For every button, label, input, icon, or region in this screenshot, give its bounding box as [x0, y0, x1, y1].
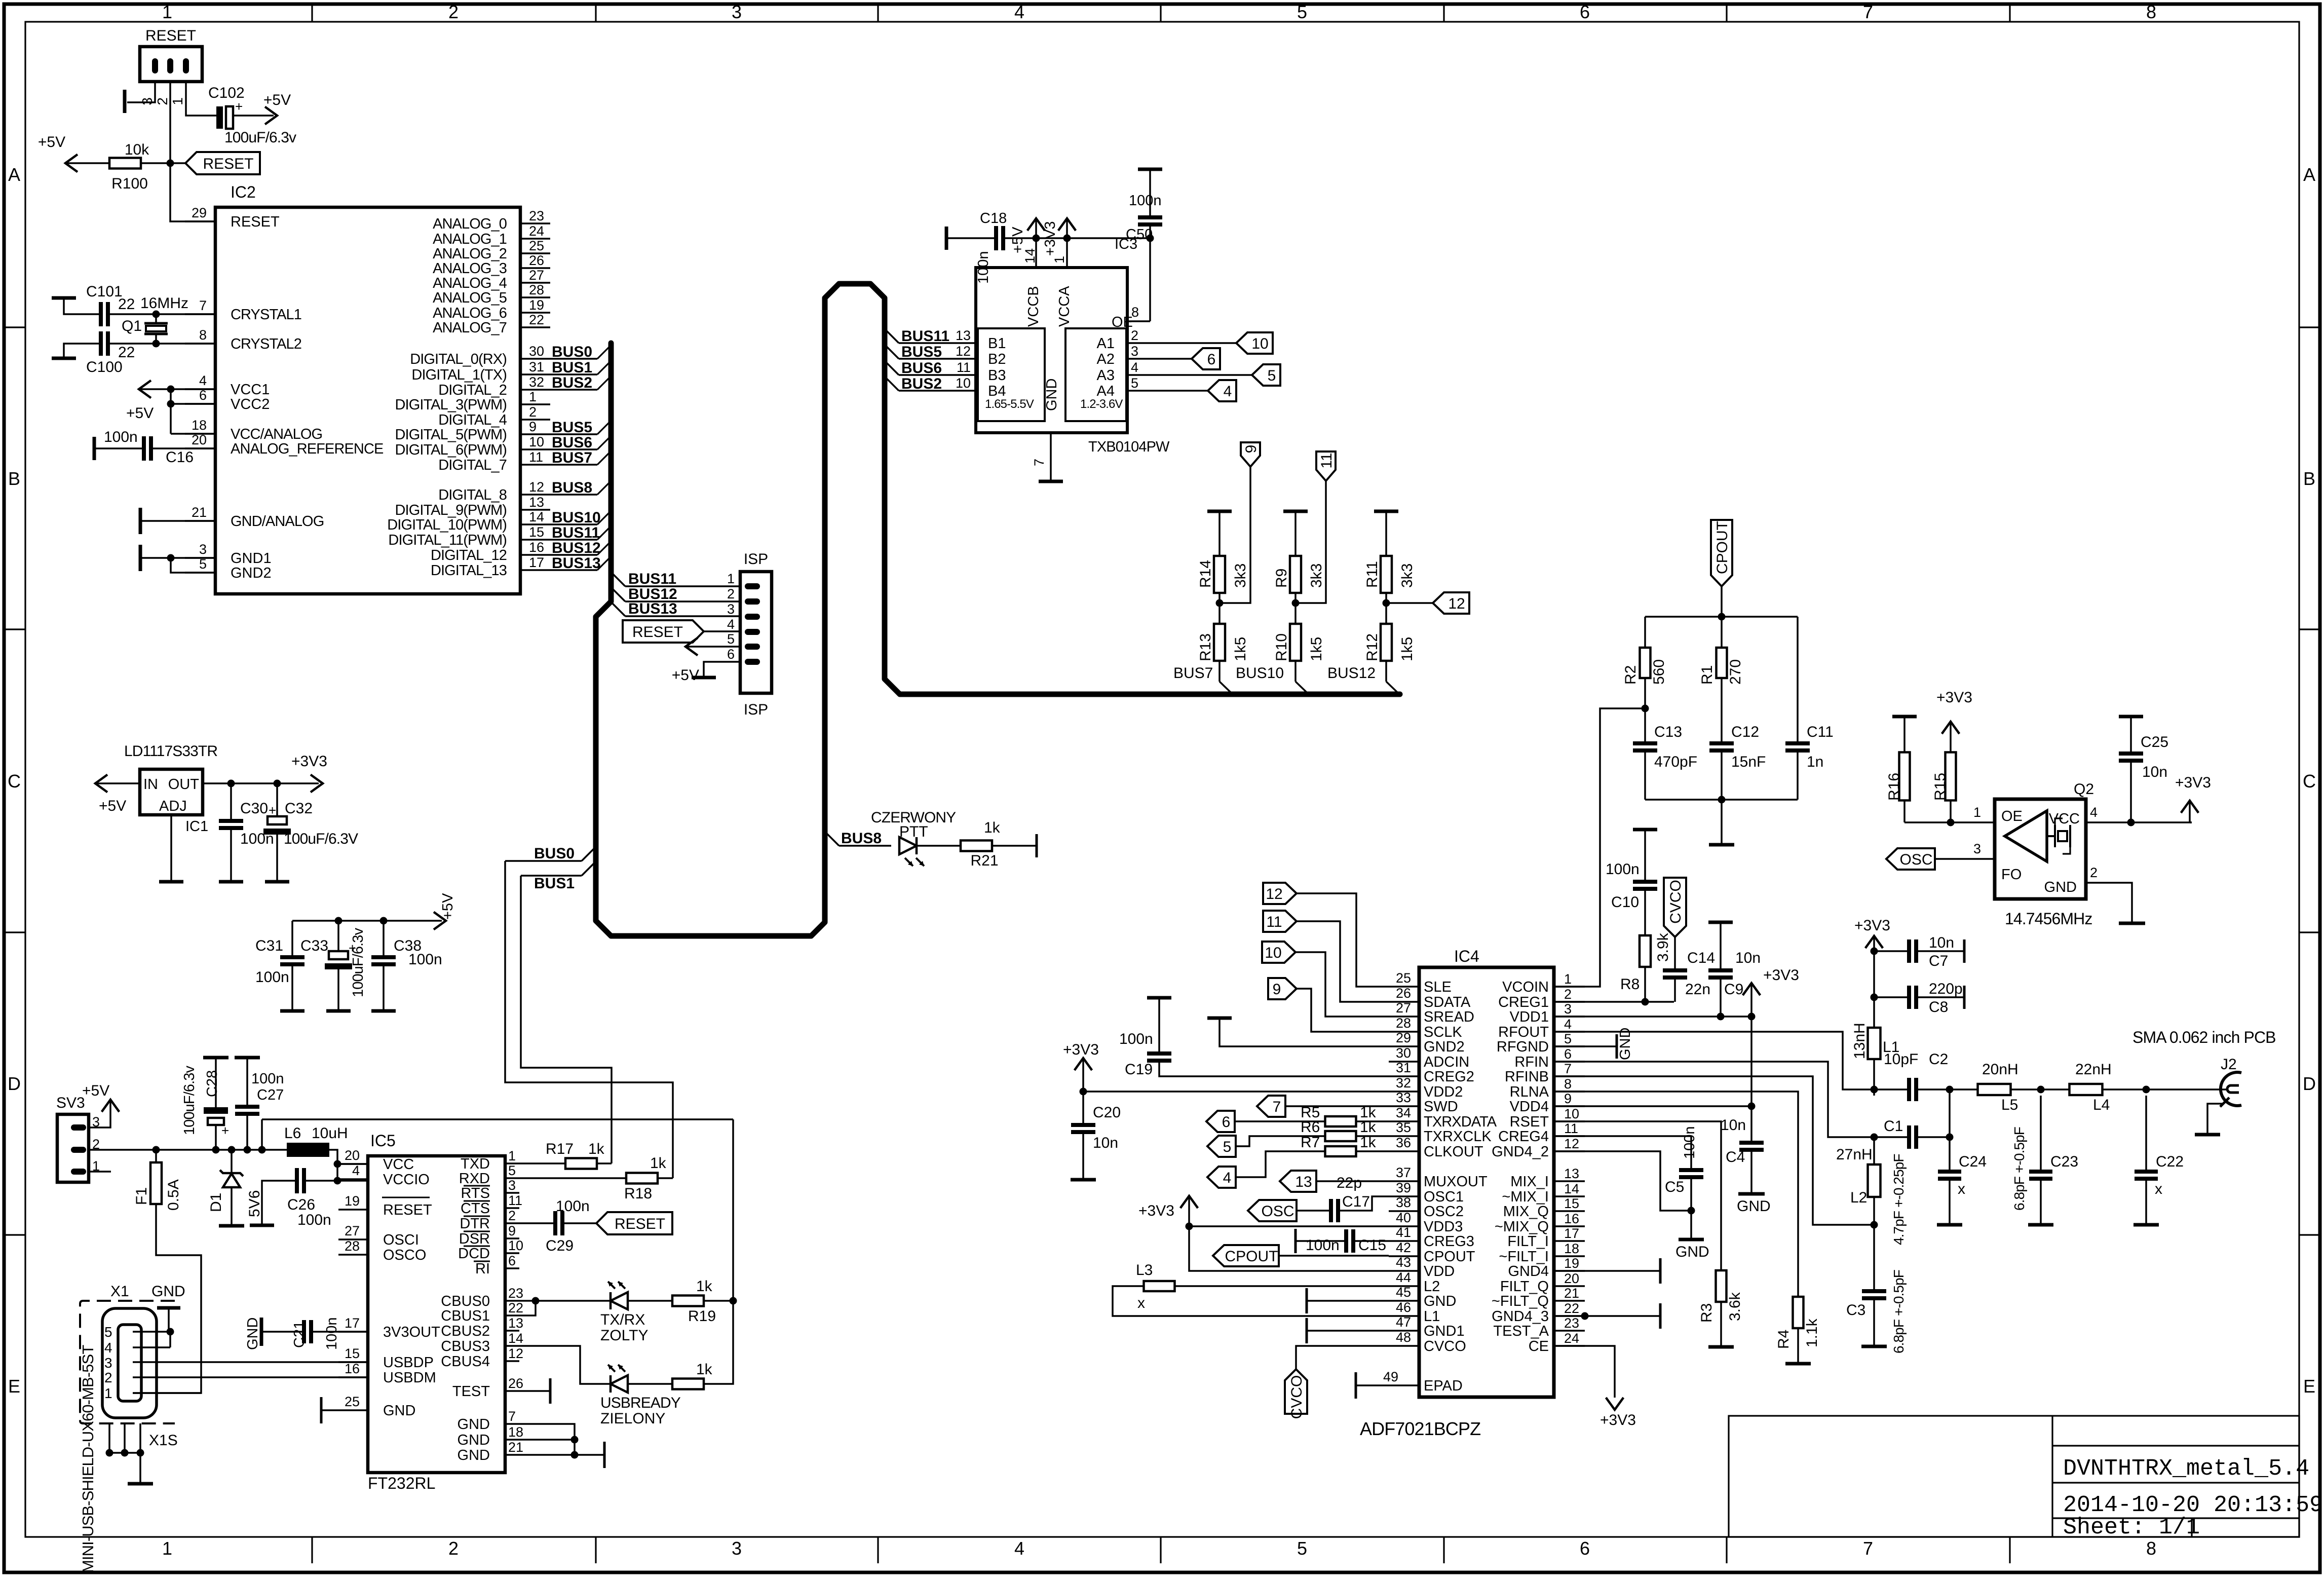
svg-text:RLNA: RLNA — [1510, 1084, 1549, 1100]
svg-text:1k5: 1k5 — [1399, 637, 1416, 661]
capacitor C15 100n — [1294, 1229, 1297, 1253]
svg-text:GND: GND — [1737, 1198, 1771, 1215]
gnd bar RFGND — [1554, 1045, 1617, 1047]
svg-text:1: 1 — [162, 1538, 172, 1559]
svg-text:24: 24 — [1564, 1331, 1579, 1346]
ic IC2 — [215, 207, 520, 594]
svg-text:14: 14 — [529, 509, 544, 524]
gnd bar C100 — [52, 357, 76, 360]
svg-text:BUS7: BUS7 — [552, 449, 592, 466]
wire L6 to IC5 VCC — [329, 1150, 337, 1181]
capacitor C19 100n — [1147, 996, 1171, 1000]
svg-text:RXD: RXD — [459, 1171, 490, 1187]
svg-text:4: 4 — [2090, 805, 2098, 820]
svg-text:MIX_Q: MIX_Q — [1503, 1204, 1549, 1220]
svg-text:L3: L3 — [1136, 1262, 1153, 1279]
svg-text:100n: 100n — [975, 251, 992, 284]
svg-text:3: 3 — [1131, 344, 1138, 359]
svg-text:3k3: 3k3 — [1308, 563, 1325, 588]
svg-text:1.1k: 1.1k — [1804, 1318, 1820, 1347]
svg-text:BUS12: BUS12 — [552, 540, 601, 556]
svg-text:49: 49 — [1383, 1369, 1398, 1384]
svg-text:FILT_Q: FILT_Q — [1500, 1279, 1549, 1295]
svg-text:A4: A4 — [1097, 383, 1115, 399]
svg-text:VCC2: VCC2 — [231, 396, 270, 412]
resistor R19 1k — [672, 1296, 704, 1306]
svg-text:46: 46 — [1396, 1300, 1411, 1315]
svg-text:35: 35 — [1396, 1120, 1411, 1135]
terminal bar GND4 pin19 — [1554, 1270, 1660, 1272]
inductor L6 10uH — [287, 1143, 329, 1157]
wire VDD — [1189, 1226, 1389, 1271]
inductor L1 13nH — [1873, 997, 1875, 1028]
resistor R21 1k — [961, 841, 992, 851]
terminal bar R21 — [1036, 834, 1038, 857]
svg-text:47: 47 — [1396, 1314, 1411, 1330]
svg-text:7: 7 — [508, 1409, 516, 1424]
svg-text:RESET: RESET — [615, 1216, 665, 1232]
svg-text:DIGITAL_13: DIGITAL_13 — [431, 562, 507, 579]
supply +5V arrow IC1 — [95, 775, 107, 793]
led TX/RX ZOLTY — [519, 1300, 611, 1302]
flag CPOUT top — [1711, 520, 1732, 586]
svg-text:3: 3 — [508, 1178, 516, 1193]
svg-text:FT232RL: FT232RL — [368, 1474, 435, 1492]
svg-text:22: 22 — [508, 1300, 523, 1315]
svg-text:OUT: OUT — [168, 776, 200, 793]
wire +5V rail SV3 to L6 — [89, 1149, 287, 1151]
svg-text:10pF: 10pF — [1884, 1051, 1918, 1068]
capacitor C23 6.8pF — [2040, 1096, 2042, 1170]
resistor R20 1k — [672, 1379, 704, 1389]
svg-text:39: 39 — [1396, 1180, 1411, 1195]
flag 10 to SREAD — [1262, 942, 1296, 963]
bus from IC2 to ISP and IC3 — [596, 284, 1400, 936]
svg-text:16: 16 — [1564, 1211, 1579, 1226]
gnd bar ADJ — [159, 880, 183, 884]
svg-text:+3V3: +3V3 — [1854, 917, 1890, 934]
svg-text:12: 12 — [1448, 595, 1465, 612]
wire GND1 GND2 — [140, 557, 215, 559]
flag CVCO top — [1664, 878, 1686, 937]
svg-text:GND: GND — [1424, 1293, 1456, 1309]
svg-text:3.6k: 3.6k — [1727, 1292, 1743, 1321]
wire LED to R21 — [917, 845, 961, 847]
svg-text:14: 14 — [1564, 1181, 1579, 1196]
svg-text:1k5: 1k5 — [1308, 637, 1325, 661]
svg-text:1k: 1k — [984, 819, 1001, 836]
capacitor C29 100n — [519, 1222, 553, 1224]
flag RESET to ISP pin4 — [623, 620, 704, 643]
svg-text:5: 5 — [1131, 375, 1138, 391]
flag RESET — [185, 152, 260, 174]
capacitor C30 100n — [230, 783, 232, 819]
wire C102 to +5V — [233, 115, 274, 117]
resistor R100 10k — [109, 158, 141, 169]
svg-text:5: 5 — [1268, 367, 1276, 384]
svg-text:R1: R1 — [1699, 665, 1716, 685]
svg-text:17: 17 — [1564, 1226, 1579, 1241]
resistor R4 1.1k — [1554, 1092, 1798, 1297]
svg-text:28: 28 — [529, 282, 544, 297]
wire X1 pin5 gnd — [133, 1331, 170, 1333]
svg-text:+3V3: +3V3 — [1763, 967, 1799, 984]
flag 10 — [1236, 332, 1273, 354]
wire C101 left to bar — [64, 299, 99, 314]
svg-text:14.7456MHz: 14.7456MHz — [2005, 910, 2092, 928]
svg-text:22p: 22p — [1337, 1175, 1362, 1191]
svg-text:C15: C15 — [1358, 1237, 1386, 1254]
capacitor C18 100n — [945, 227, 948, 250]
svg-text:USBDP: USBDP — [383, 1355, 434, 1371]
wire RFIN to C1 — [1554, 1062, 1874, 1137]
svg-text:1: 1 — [508, 1148, 516, 1163]
svg-text:16: 16 — [529, 540, 544, 555]
svg-text:15: 15 — [345, 1346, 360, 1361]
capacitor C8 220p — [1874, 996, 1907, 998]
svg-text:15: 15 — [1564, 1196, 1579, 1211]
svg-text:RESET: RESET — [145, 27, 196, 44]
svg-text:DIGITAL_6(PWM): DIGITAL_6(PWM) — [395, 442, 507, 458]
svg-text:SMA 0.062 inch PCB: SMA 0.062 inch PCB — [2132, 1028, 2276, 1046]
svg-text:R3: R3 — [1698, 1303, 1715, 1323]
capacitor C16 100n — [93, 437, 96, 460]
svg-text:C8: C8 — [1929, 999, 1948, 1016]
svg-text:BUS13: BUS13 — [628, 600, 677, 617]
svg-text:ANALOG_0: ANALOG_0 — [433, 216, 507, 232]
wire BUS1 route to R17 — [521, 876, 612, 1163]
svg-text:ANALOG_1: ANALOG_1 — [433, 231, 507, 247]
svg-text:TXRXCLK: TXRXCLK — [1424, 1129, 1492, 1145]
svg-text:22: 22 — [529, 312, 544, 327]
svg-text:6: 6 — [1580, 1538, 1590, 1559]
svg-text:26: 26 — [1396, 986, 1411, 1001]
svg-text:12: 12 — [508, 1346, 523, 1361]
svg-text:RFGND: RFGND — [1497, 1039, 1549, 1055]
wire RESET pin3 to gnd — [127, 82, 155, 102]
resistor R8 3.9k — [1640, 935, 1651, 967]
svg-text:5V6: 5V6 — [246, 1190, 263, 1217]
wire X1 pin4 gnd — [133, 1346, 170, 1348]
svg-text:4: 4 — [1224, 383, 1232, 400]
svg-text:VCC: VCC — [2049, 811, 2080, 827]
svg-text:R9: R9 — [1273, 569, 1290, 588]
svg-text:C27: C27 — [257, 1087, 284, 1103]
svg-text:C2: C2 — [1929, 1051, 1948, 1068]
svg-text:ANALOG_2: ANALOG_2 — [433, 246, 507, 262]
inductor L5 20nH — [1978, 1084, 2011, 1095]
svg-text:C9: C9 — [1724, 981, 1743, 998]
svg-text:100n: 100n — [251, 1071, 284, 1087]
svg-text:C21: C21 — [291, 1321, 308, 1348]
svg-text:20: 20 — [1564, 1271, 1579, 1286]
svg-text:VCCIO: VCCIO — [383, 1172, 430, 1188]
svg-text:4: 4 — [1014, 2, 1024, 22]
resistor R16 — [1892, 715, 1917, 719]
svg-text:BUS5: BUS5 — [901, 344, 942, 360]
svg-text:23: 23 — [1564, 1315, 1579, 1331]
wire +5V branch to LED resistors — [262, 1118, 733, 1120]
svg-text:2: 2 — [104, 1370, 112, 1385]
svg-text:CBUS1: CBUS1 — [441, 1308, 490, 1324]
flag 5 to R6 — [1207, 1136, 1236, 1157]
wire RFOUT to RF line — [1554, 1032, 1874, 1089]
svg-text:C26: C26 — [287, 1196, 315, 1213]
svg-text:R21: R21 — [970, 852, 998, 869]
svg-text:10n: 10n — [1093, 1135, 1118, 1151]
svg-text:MUXOUT: MUXOUT — [1424, 1174, 1488, 1190]
svg-text:DIGITAL_1(TX): DIGITAL_1(TX) — [411, 367, 507, 383]
svg-text:BUS1: BUS1 — [552, 359, 592, 376]
svg-text:25: 25 — [1396, 970, 1411, 986]
svg-text:B2: B2 — [988, 351, 1006, 367]
svg-text:1k: 1k — [588, 1141, 605, 1157]
wire R8 to CREG1 — [1644, 967, 1646, 1002]
svg-text:BUS11: BUS11 — [628, 571, 676, 587]
capacitor C3 6.8pF — [1873, 1225, 1875, 1289]
svg-text:7: 7 — [1564, 1061, 1572, 1076]
svg-text:10n: 10n — [1721, 1117, 1746, 1134]
svg-text:3V3OUT: 3V3OUT — [383, 1324, 440, 1340]
svg-text:2: 2 — [1564, 987, 1572, 1002]
wire VDD4 vertical — [1750, 1017, 1752, 1141]
node reset junction — [167, 160, 174, 167]
svg-text:C13: C13 — [1654, 724, 1682, 740]
svg-text:4: 4 — [199, 373, 207, 388]
terminal bar TEST — [549, 1378, 552, 1404]
svg-text:+3V3: +3V3 — [1600, 1412, 1636, 1428]
resistor R10 1k5 — [1290, 624, 1301, 661]
gnd bar pin3 — [123, 90, 127, 113]
bus tap BUS11 to IC3 — [885, 329, 899, 343]
svg-text:C5: C5 — [1665, 1179, 1684, 1195]
capacitor C101 22 — [99, 302, 103, 326]
svg-text:VDD2: VDD2 — [1424, 1084, 1463, 1100]
capacitor C33 100uF — [337, 921, 339, 951]
svg-text:USBDM: USBDM — [383, 1370, 436, 1386]
wire CE to +3V3 — [1554, 1346, 1615, 1398]
svg-text:E: E — [2303, 1376, 2315, 1397]
wire VCC Q2 to C25 — [2086, 821, 2192, 823]
svg-text:+3V3: +3V3 — [291, 753, 327, 770]
svg-text:4: 4 — [1014, 1538, 1024, 1559]
supply +3V3 arrow CE — [1606, 1398, 1624, 1410]
svg-text:11: 11 — [957, 360, 971, 375]
wire R19 to VCCIO net — [704, 1300, 733, 1302]
svg-text:100n: 100n — [408, 951, 442, 968]
svg-text:VDD3: VDD3 — [1424, 1219, 1463, 1235]
svg-text:OSC: OSC — [1899, 851, 1932, 868]
wire flag12 to R11/R12 — [1386, 602, 1433, 604]
wire VDD2 — [1083, 1091, 1389, 1093]
capacitor C9 10n — [1708, 921, 1733, 924]
gnd bar C26 — [250, 1224, 274, 1227]
svg-text:8: 8 — [2146, 1538, 2156, 1559]
svg-text:L2: L2 — [1424, 1279, 1440, 1295]
svg-text:TXRXDATA: TXRXDATA — [1424, 1114, 1497, 1130]
capacitor C2 10pF — [1907, 1078, 1911, 1101]
wire A1 to flag 10 — [1161, 342, 1236, 344]
svg-text:C18: C18 — [980, 210, 1007, 227]
supply +5V arrow rail — [434, 912, 446, 930]
svg-text:1: 1 — [170, 97, 185, 105]
supply +5V arrow VCCB — [1027, 218, 1045, 231]
gnd bar C5 — [1690, 1211, 1692, 1238]
svg-text:L2: L2 — [1850, 1189, 1867, 1206]
flag 9 — [1241, 442, 1260, 467]
svg-text:C12: C12 — [1731, 724, 1759, 740]
flag 12 — [1433, 592, 1469, 614]
svg-text:6: 6 — [1580, 2, 1590, 22]
svg-text:A2: A2 — [1097, 351, 1115, 367]
wire SV3 pin3 to +5V — [89, 1111, 110, 1127]
svg-text:23: 23 — [529, 208, 544, 223]
svg-text:GND: GND — [1044, 379, 1060, 411]
svg-text:DIGITAL_2: DIGITAL_2 — [438, 382, 507, 398]
svg-text:IC2: IC2 — [231, 183, 256, 201]
svg-text:11: 11 — [1318, 453, 1335, 468]
svg-text:14: 14 — [508, 1331, 523, 1346]
capacitor C12 15nF — [1721, 678, 1723, 741]
svg-text:10: 10 — [1251, 335, 1268, 352]
svg-text:270: 270 — [1727, 659, 1744, 685]
capacitor C26 100n — [295, 1168, 299, 1193]
svg-text:DIGITAL_9(PWM): DIGITAL_9(PWM) — [395, 502, 507, 518]
svg-text:100n: 100n — [1306, 1237, 1340, 1254]
crystal Q1 16MHz — [153, 311, 160, 318]
svg-text:DIGITAL_7: DIGITAL_7 — [438, 457, 507, 473]
svg-text:X1: X1 — [110, 1283, 129, 1300]
svg-text:26: 26 — [508, 1376, 523, 1391]
svg-text:BUS12: BUS12 — [1327, 665, 1376, 682]
svg-text:21: 21 — [508, 1440, 523, 1455]
svg-text:C7: C7 — [1929, 953, 1948, 969]
resistor R18 1k — [519, 1177, 626, 1179]
svg-text:~FILT_Q: ~FILT_Q — [1492, 1293, 1549, 1309]
svg-text:CREG1: CREG1 — [1498, 994, 1549, 1010]
svg-text:32: 32 — [1396, 1075, 1411, 1091]
svg-text:DSR: DSR — [459, 1231, 490, 1247]
svg-text:32: 32 — [529, 374, 544, 390]
svg-text:+5V: +5V — [82, 1082, 109, 1099]
flag OSC to Q2 — [1886, 848, 1935, 870]
capacitor C22 x — [2145, 1096, 2147, 1170]
flag 6 to R5 — [1206, 1111, 1235, 1132]
svg-text:ANALOG_5: ANALOG_5 — [433, 290, 507, 306]
svg-text:VCCB: VCCB — [1025, 286, 1042, 327]
ic IC3 TXB0104PW — [976, 268, 1127, 433]
capacitor C25 10n — [2119, 715, 2143, 719]
svg-text:C30: C30 — [240, 800, 268, 817]
svg-text:10: 10 — [1564, 1106, 1579, 1121]
terminal bar GND21 — [603, 1442, 606, 1468]
svg-text:BUS11: BUS11 — [552, 524, 600, 541]
svg-text:RFIN: RFIN — [1514, 1054, 1549, 1070]
wire +5V net down to R19/R20 — [704, 1119, 733, 1384]
svg-text:DIGITAL_12: DIGITAL_12 — [431, 547, 507, 563]
svg-text:16: 16 — [345, 1361, 360, 1376]
svg-text:C23: C23 — [2050, 1153, 2078, 1170]
wire R2 to C13 — [1644, 678, 1646, 741]
svg-text:1: 1 — [529, 389, 537, 404]
bus tap BUS0 — [582, 847, 596, 861]
svg-text:A: A — [8, 164, 20, 185]
svg-text:22nH: 22nH — [2075, 1061, 2112, 1078]
wire CREG1 — [1554, 1001, 1674, 1003]
svg-text:15nF: 15nF — [1731, 754, 1766, 770]
svg-text:L1: L1 — [1424, 1308, 1440, 1325]
ic IC1 LD1117S33TR — [140, 769, 203, 815]
capacitor C1 4.7pF — [1874, 1136, 1907, 1138]
svg-text:C4: C4 — [1726, 1149, 1745, 1166]
svg-text:26: 26 — [529, 253, 544, 268]
svg-text:TXD: TXD — [461, 1156, 490, 1172]
wire C13 to rail — [1644, 753, 1646, 800]
terminal bar GND pin45 — [1307, 1300, 1389, 1302]
svg-text:DCD: DCD — [458, 1246, 490, 1262]
wire C26 to gnd — [262, 1181, 295, 1224]
svg-text:+3V3: +3V3 — [1063, 1041, 1099, 1058]
svg-text:29: 29 — [1396, 1030, 1411, 1045]
svg-text:41: 41 — [1396, 1225, 1411, 1240]
svg-text:A3: A3 — [1097, 367, 1115, 384]
svg-text:1: 1 — [1052, 256, 1067, 264]
bus tap BUS5 to IC3 — [885, 345, 899, 359]
svg-text:4: 4 — [1131, 360, 1138, 375]
led CZERWONY PTT — [899, 837, 917, 854]
svg-text:5: 5 — [1564, 1031, 1572, 1046]
svg-text:R19: R19 — [688, 1308, 716, 1325]
svg-text:C: C — [2303, 771, 2316, 792]
flag 7 to SWD — [1257, 1096, 1285, 1117]
wire RF line to C2 — [1874, 1088, 1907, 1091]
flag 5 — [1252, 364, 1280, 386]
svg-text:C1: C1 — [1884, 1118, 1903, 1135]
svg-text:R17: R17 — [546, 1141, 574, 1157]
flag 11 to SDATA — [1263, 911, 1297, 932]
svg-text:+: + — [221, 1123, 229, 1138]
wire bar to R9 — [1294, 511, 1297, 556]
wire C101 to crystal1 — [110, 313, 215, 315]
svg-text:3: 3 — [1564, 1001, 1572, 1017]
svg-text:RESET: RESET — [383, 1202, 432, 1218]
resistor R14 3k3 — [1214, 556, 1225, 593]
svg-text:28: 28 — [345, 1238, 360, 1254]
svg-text:OSCO: OSCO — [383, 1247, 426, 1263]
svg-text:4.7pF +-0.25pF: 4.7pF +-0.25pF — [1891, 1154, 1907, 1245]
svg-text:1: 1 — [1564, 971, 1572, 987]
svg-text:DIGITAL_5(PWM): DIGITAL_5(PWM) — [395, 427, 507, 443]
svg-text:100n: 100n — [1606, 861, 1640, 878]
svg-text:12: 12 — [529, 479, 544, 495]
ic IC4 ADF7021BCPZ — [1419, 967, 1554, 1397]
flag RESET FT232 — [596, 1212, 672, 1234]
svg-text:IC1: IC1 — [185, 818, 208, 835]
svg-text:J2: J2 — [2221, 1056, 2237, 1073]
svg-text:CBUS2: CBUS2 — [441, 1323, 490, 1339]
pin EPAD 49 — [1356, 1384, 1419, 1386]
svg-text:16MHz: 16MHz — [140, 295, 188, 312]
svg-text:VCC: VCC — [383, 1156, 414, 1173]
svg-text:C14: C14 — [1687, 950, 1715, 966]
wire X1 pin3 USBDP — [133, 1361, 368, 1363]
svg-text:R6: R6 — [1301, 1119, 1320, 1136]
svg-text:7: 7 — [1273, 1099, 1281, 1115]
resistor R7 1k — [1325, 1146, 1356, 1156]
capacitor C31 100n — [291, 921, 293, 955]
svg-text:34: 34 — [1396, 1105, 1411, 1120]
svg-text:C20: C20 — [1093, 1104, 1121, 1121]
